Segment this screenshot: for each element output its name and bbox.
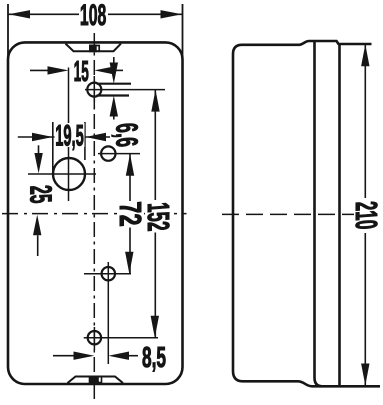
- dimension 152: [151, 90, 160, 338]
- top notch: [66, 44, 122, 52]
- hole 4 (bottom lower): [88, 331, 101, 344]
- svg-text:15: 15: [74, 54, 89, 87]
- svg-text:8,5: 8,5: [142, 343, 166, 375]
- svg-text:6,6: 6,6: [109, 122, 142, 148]
- side view centerline: [222, 213, 355, 215]
- hole 3 cross: [84, 262, 131, 364]
- dimension 108: [9, 10, 183, 18]
- dimension 19,5: [18, 122, 110, 174]
- svg-text:25: 25: [23, 184, 57, 204]
- dim text 15: [73, 59, 92, 83]
- extension line left (108): [7, 4, 9, 60]
- dim text 72 (rotated): [118, 201, 143, 228]
- dim text 210 (rotated): [354, 198, 378, 233]
- dimension 72: [125, 154, 134, 274]
- dim text 108: [79, 3, 108, 26]
- hole 3 (bottom upper): [102, 267, 115, 280]
- dim text 25 (rotated): [23, 184, 57, 204]
- dim text 8,5: [142, 343, 166, 375]
- front view outline: [8, 42, 183, 384]
- centerline horizontal (front view): [2, 213, 187, 215]
- dim text 19,5: [55, 123, 85, 147]
- svg-text:108: 108: [80, 0, 106, 32]
- dim text 6,6 (rotated): [109, 122, 142, 148]
- bottom tab: [68, 377, 124, 384]
- dimension 8,5: [53, 352, 138, 360]
- big circle cross: [28, 68, 96, 202]
- extension line right (108): [182, 4, 184, 60]
- hole 2 line (72 extension): [98, 153, 140, 155]
- side view outline: [233, 41, 380, 386]
- dimension 210: [361, 44, 369, 385]
- hole slot top (hole 1): [87, 83, 131, 97]
- centerline vertical (front view): [93, 33, 95, 399]
- dimension 25: [33, 145, 43, 256]
- svg-text:19,5: 19,5: [55, 119, 84, 152]
- dimension 6.6: [110, 57, 118, 120]
- dimension 15: [30, 66, 123, 74]
- svg-text:152: 152: [141, 201, 174, 232]
- big circle: [53, 158, 85, 190]
- hole middle (hole 2): [101, 146, 115, 160]
- dim text 152 (rotated): [145, 200, 169, 233]
- hole 4 cross: [84, 327, 158, 350]
- hole 1 cross: [85, 76, 165, 108]
- svg-text:210: 210: [348, 200, 381, 231]
